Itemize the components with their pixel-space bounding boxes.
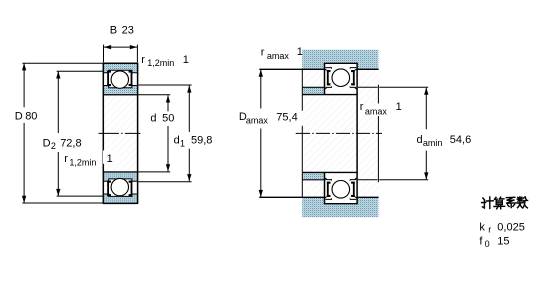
housing bottom band (blue) bbox=[302, 198, 378, 217]
label d 50 bbox=[149, 112, 176, 125]
bore line top bbox=[103, 94, 139, 95]
svg-text:1: 1 bbox=[396, 101, 402, 113]
svg-text:amax: amax bbox=[246, 115, 269, 125]
texture background right figure bbox=[303, 50, 381, 218]
svg-text:80: 80 bbox=[25, 110, 37, 122]
label D2 72,8 bbox=[42, 136, 82, 151]
svg-text:d: d bbox=[417, 134, 423, 146]
shaft shoulder bottom (blue) bbox=[302, 173, 324, 179]
dimension Damax bbox=[259, 70, 263, 198]
svg-text:1: 1 bbox=[297, 46, 303, 58]
svg-text:75,4: 75,4 bbox=[276, 111, 297, 123]
dimension d1 bbox=[138, 85, 191, 182]
dimension D2 bbox=[56, 71, 103, 196]
svg-text:f: f bbox=[479, 235, 483, 247]
svg-text:50: 50 bbox=[162, 113, 174, 125]
svg-text:1,2min: 1,2min bbox=[69, 157, 96, 167]
seal right bbox=[129, 71, 133, 73]
right clip line bbox=[377, 85, 379, 183]
seal left bbox=[107, 71, 111, 73]
svg-text:d: d bbox=[150, 113, 156, 125]
bore lines right figure bbox=[302, 95, 357, 173]
svg-text:72,8: 72,8 bbox=[60, 137, 81, 149]
shu bbox=[517, 197, 522, 208]
dimension damin bbox=[358, 87, 428, 180]
svg-text:d: d bbox=[174, 135, 180, 147]
svg-text:D: D bbox=[15, 110, 23, 122]
ji bbox=[482, 198, 486, 208]
outer ring top (blue) bbox=[104, 64, 137, 73]
svg-text:amax: amax bbox=[365, 106, 388, 116]
label r amax 1 (middle) bbox=[359, 101, 402, 117]
left bearing bottom section group (mirror) bbox=[103, 171, 139, 203]
label r1,2min 1 (bottom left) bbox=[64, 150, 119, 167]
svg-text:59,8: 59,8 bbox=[191, 135, 212, 147]
right bearing side faces bbox=[325, 63, 358, 203]
suan bbox=[495, 197, 504, 199]
svg-text:1,2min: 1,2min bbox=[147, 58, 174, 68]
svg-text:1: 1 bbox=[107, 153, 113, 165]
left bearing top section group bbox=[103, 64, 139, 96]
shaft shoulder top (blue) bbox=[302, 88, 324, 94]
label D 80 bbox=[13, 108, 40, 122]
dimension d bbox=[138, 95, 170, 172]
housing shoulder lines + Damax extension lines bbox=[259, 69, 378, 197]
svg-text:r: r bbox=[141, 54, 145, 66]
left clip line bbox=[301, 69, 303, 197]
centerline left bbox=[99, 132, 141, 134]
svg-text:r: r bbox=[360, 101, 364, 113]
label d1 59,8 bbox=[172, 133, 215, 148]
Chinese title 计算系数 (drawn strokes) bbox=[482, 197, 528, 209]
svg-text:r: r bbox=[488, 225, 491, 235]
svg-text:0,025: 0,025 bbox=[497, 221, 525, 233]
svg-text:1: 1 bbox=[183, 54, 189, 66]
svg-text:amax: amax bbox=[267, 51, 290, 61]
svg-text:54,6: 54,6 bbox=[450, 134, 471, 146]
housing seat lines bbox=[324, 63, 358, 203]
svg-text:B: B bbox=[110, 24, 117, 36]
ball top bbox=[111, 71, 128, 88]
centerline right bbox=[296, 132, 382, 134]
svg-text:2: 2 bbox=[51, 141, 56, 151]
svg-text:k: k bbox=[479, 221, 485, 233]
inner ring top section (blue) bbox=[104, 86, 137, 95]
svg-text:0: 0 bbox=[485, 239, 490, 249]
svg-text:1: 1 bbox=[180, 138, 185, 148]
svg-text:D: D bbox=[43, 137, 51, 149]
svg-text:23: 23 bbox=[122, 24, 134, 36]
svg-text:r: r bbox=[64, 153, 68, 165]
svg-text:r: r bbox=[261, 46, 265, 58]
right bearing bottom section (mirror) bbox=[325, 178, 357, 199]
dimension B bbox=[104, 45, 138, 63]
right bearing top section bbox=[325, 68, 357, 89]
svg-text:15: 15 bbox=[497, 235, 509, 247]
texture background left bearing bbox=[100, 63, 141, 204]
housing top band (blue) bbox=[302, 50, 378, 69]
dimension D bbox=[22, 63, 103, 203]
left bearing outline box bbox=[103, 63, 139, 203]
svg-text:amin: amin bbox=[423, 138, 443, 148]
xi bbox=[506, 197, 516, 207]
